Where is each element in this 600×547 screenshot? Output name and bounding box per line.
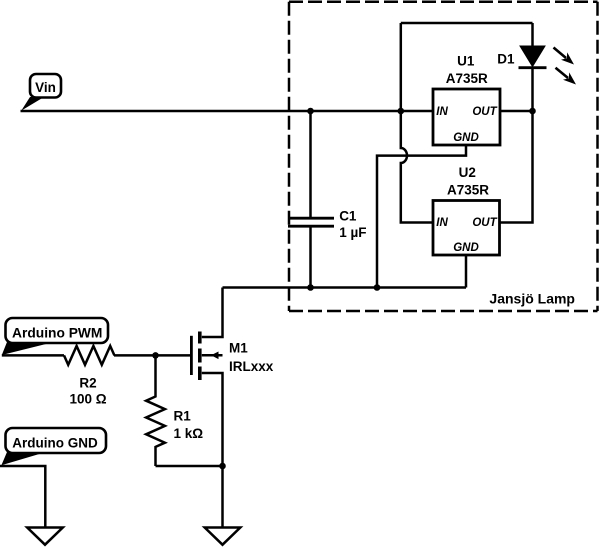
wire U1 OUT lead [500, 110, 533, 113]
node Vin / U2 branch [398, 108, 405, 115]
svg-text:Arduino GND: Arduino GND [12, 435, 98, 450]
node C1 bottom / rail [307, 284, 314, 291]
svg-text:100 Ω: 100 Ω [69, 391, 106, 406]
node junction dots [152, 108, 536, 470]
node C1 top / Vin [307, 108, 314, 115]
svg-text:GND: GND [453, 132, 479, 144]
wire D1 anode lead [531, 23, 534, 46]
svg-text:Arduino PWM: Arduino PWM [12, 325, 102, 340]
wire U1 GND down to rail [377, 145, 466, 288]
svg-text:Jansjö Lamp: Jansjö Lamp [489, 291, 575, 307]
dashed enclosure Jansjö Lamp box [289, 2, 598, 311]
wire branch Vin down to U2 IN (with hop over U1-GND wire) [401, 23, 433, 223]
wire top loop to D1 anode [401, 22, 533, 25]
svg-text:IRLxxx: IRLxxx [229, 359, 274, 374]
flag Vin [21, 74, 61, 111]
resistor R2 [64, 346, 114, 406]
node source / R1 / ground [219, 463, 226, 470]
wire U2 GND lead [465, 255, 468, 288]
svg-text:IN: IN [436, 106, 448, 118]
svg-text:U1: U1 [457, 54, 475, 69]
node U1 GND / rail [374, 284, 381, 291]
svg-text:OUT: OUT [472, 106, 497, 118]
svg-text:OUT: OUT [472, 217, 497, 229]
regulator U2 [433, 165, 500, 255]
svg-text:R2: R2 [79, 376, 96, 391]
regulator U1 [433, 54, 500, 146]
svg-text:A735R: A735R [446, 71, 488, 86]
label Jansjö Lamp [489, 291, 575, 307]
LED D1 [519, 46, 577, 85]
svg-text:U2: U2 [459, 165, 476, 180]
wire GND rail inside lamp box [223, 286, 467, 289]
svg-text:1 kΩ: 1 kΩ [174, 426, 204, 441]
wire R1 bottom to MOSFET source [156, 465, 223, 468]
resistor R1 [146, 355, 203, 466]
svg-text:1 µF: 1 µF [339, 225, 366, 240]
svg-text:Vin: Vin [35, 80, 56, 95]
ground (main, under M1 source) [205, 528, 241, 545]
svg-text:A735R: A735R [447, 182, 489, 197]
wire MOSFET source down to ground [221, 466, 224, 528]
wire Arduino GND flag to ground [0, 466, 45, 528]
svg-text:GND: GND [453, 242, 479, 254]
wire Vin horizontal (Vin to U1 IN) [21, 110, 434, 113]
svg-text:IN: IN [436, 217, 448, 229]
transistor M1 (N-MOSFET) [191, 332, 273, 467]
node R2 / R1 / gate [152, 352, 159, 359]
svg-text:R1: R1 [174, 409, 192, 424]
wire D1 cathode rail to U2 OUT [500, 68, 533, 223]
node D1 cathode / U1 OUT [529, 108, 536, 115]
flag Arduino GND [1, 428, 106, 465]
ground (Arduino GND) [27, 528, 63, 545]
flag Arduino PWM [2, 318, 108, 355]
label D1 [497, 51, 515, 66]
wire gate lead [114, 354, 190, 357]
capacitor C1 [288, 111, 366, 288]
wire drain (rail down to MOSFET drain) [202, 288, 223, 338]
svg-text:C1: C1 [339, 209, 357, 224]
svg-text:D1: D1 [497, 51, 515, 66]
svg-text:M1: M1 [229, 341, 248, 356]
wire Arduino PWM to R2 [2, 354, 64, 357]
